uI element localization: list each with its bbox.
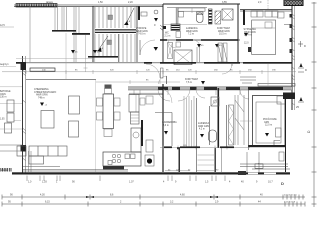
garderoba L wall (155, 113, 172, 147)
svg-text:Dwa: Dwa (258, 164, 263, 166)
kitchen small box (140, 98, 145, 105)
dim line 1 arrows (86, 196, 218, 198)
level marker triangle entry (154, 18, 158, 27)
dark bar under duct (52, 30, 76, 32)
sideboard dark top (105, 85, 112, 89)
pantry box (145, 155, 154, 166)
svg-text:BATORLE: BATORLE (0, 90, 11, 93)
stair number box lower (107, 40, 112, 45)
bedroom left wall stub (243, 10, 245, 25)
kitchen left counter (129, 94, 139, 112)
left room divider vertical (29, 6, 31, 62)
right dim arrow3 (296, 97, 304, 109)
lower dark vertical garderoba (179, 148, 181, 172)
pantry box upper (146, 96, 153, 104)
toilet bath2 (209, 130, 217, 142)
dark dash (177, 147, 180, 149)
kitchen appliance stack (131, 112, 140, 124)
right dim small arrows (298, 41, 306, 48)
shower box bath2 (211, 97, 219, 106)
corridor second dim line (96, 80, 180, 84)
corridor door leaf+arc kitchen (159, 76, 167, 84)
tick marks below bottom wall (27, 176, 225, 182)
bed (252, 20, 276, 55)
small sink boxes top right of counter (108, 161, 112, 165)
stairwell left wall (93, 6, 95, 62)
kitchen counter top edge (129, 93, 163, 94)
hall text label (136, 27, 148, 36)
bathroom right wall (237, 4, 239, 62)
dining table (103, 94, 114, 129)
stair stringer line (118, 34, 120, 62)
stair arrow up (124, 8, 134, 25)
left edge small label (0, 24, 14, 27)
level marker entry lower (154, 47, 159, 51)
entry lower door leaf (139, 40, 141, 55)
sofa (29, 146, 67, 164)
terrace tick line c (14, 120, 21, 122)
garderoba hatch strip (229, 105, 234, 145)
sink rects (125, 154, 135, 159)
left edge text (0, 90, 11, 99)
bath mid wall (160, 39, 240, 41)
door arc room1 (158, 89, 170, 101)
closet rails right (235, 95, 244, 145)
wc dark blob (163, 26, 166, 29)
child room step notch (274, 141, 280, 146)
washing machine dark blob (147, 158, 152, 163)
level marker garderoba2 (215, 44, 222, 48)
svg-text:1,03: 1,03 (42, 181, 47, 184)
lower rooms verticals (197, 98, 227, 172)
garderoba1 level (164, 131, 168, 135)
thin vertical x66 (65, 33, 67, 79)
window gap slot 2 (264, 173, 276, 175)
child furniture (276, 128, 282, 137)
small rect near bath b (176, 42, 181, 47)
stairwell right wall (136, 6, 138, 62)
bath fixture base line (163, 24, 207, 26)
wc label (165, 33, 171, 38)
svg-text:D: D (305, 68, 307, 72)
chairs left (97, 98, 103, 120)
wardrobe x-box lower (174, 50, 192, 65)
child room label (263, 118, 277, 127)
washbasin (179, 12, 184, 18)
terrace tick line a (0, 86, 22, 88)
svg-text:4,30: 4,30 (40, 194, 45, 197)
bottom main wall (12, 172, 290, 174)
kitchen tall cabinet (131, 128, 141, 152)
dim numbers row under wall (28, 181, 273, 184)
door arc bath (196, 89, 205, 98)
band ticks (134, 90, 240, 95)
D marker bottom (281, 181, 284, 186)
dim vertical x85 (84, 35, 88, 72)
window gap slot 1 (248, 173, 258, 175)
svg-text:terasa: terasa (1, 169, 8, 172)
svg-text:3,3 m: 3,3 m (163, 125, 169, 127)
child left line (240, 120, 252, 122)
upper secondary wall line (16, 58, 93, 60)
bedroom wardrobe small rect (278, 12, 285, 18)
bath2 label (198, 122, 210, 131)
level marker garderoba1 (197, 44, 204, 48)
dim numbers line1 (10, 194, 298, 197)
right top dark corner wall (283, 93, 295, 100)
closet shelves lines (198, 155, 215, 165)
door arc room2 (178, 89, 190, 101)
dark seg mid wall b (176, 39, 193, 41)
svg-text:AWR GRN: AWR GRN (198, 125, 209, 128)
vertical stub child bottom (247, 152, 259, 172)
bed side dark blob (248, 47, 251, 52)
terrace tick line b (0, 103, 22, 105)
living room label (34, 88, 56, 99)
entry door bracket (141, 12, 147, 16)
bath2 level (200, 134, 204, 138)
svg-text:1,07: 1,07 (129, 181, 134, 184)
dimension numbers top (42, 70, 276, 72)
child room walls (253, 96, 286, 147)
svg-text:4,60: 4,60 (180, 194, 185, 197)
child room bottom wall dark (248, 145, 286, 147)
corridor top wall dark segments (16, 62, 292, 64)
top terrace hatched band (16, 0, 57, 7)
bedroom inner line (284, 24, 292, 26)
bedroom label (244, 28, 257, 37)
svg-text:GWN: GWN (0, 94, 6, 96)
desk corridor right (240, 77, 256, 83)
chair bottom (104, 129, 112, 137)
bathroom label (186, 27, 198, 36)
kitchen counter dark (103, 166, 124, 170)
right dim arrow2 (298, 63, 307, 72)
dark seg mid wall (160, 39, 167, 41)
chairs right (114, 98, 120, 120)
corridor left wall child (248, 89, 250, 150)
bottom dimension line 2 (2, 202, 305, 207)
left divider line (0, 128, 22, 130)
garderoba label1 (162, 121, 177, 127)
svg-text:6,15: 6,15 (45, 201, 50, 204)
hallway wardrobe beam (30, 68, 55, 71)
radiator striped block (171, 24, 180, 31)
svg-text:748 m: 748 m (38, 96, 45, 99)
corridor bottom dark segments (158, 87, 283, 90)
corridor-right vertical (267, 64, 269, 86)
closet partitions (197, 47, 200, 62)
hall wall vertical (162, 4, 164, 62)
left exterior wall vertical (23, 56, 26, 173)
svg-text:3,55: 3,55 (222, 1, 227, 4)
dark wall segment y33 (72, 33, 90, 35)
tv cabinet upper (69, 96, 80, 114)
dark roof hatch block top-right (284, 0, 303, 6)
small rect near bath (176, 32, 181, 38)
room bottom wall dark segs (164, 146, 234, 148)
shaft x-box (222, 9, 233, 20)
svg-text:tarasy: tarasy (46, 0, 54, 4)
stair bottom dark bar (88, 56, 118, 58)
duct wall verticals upper-left (55, 6, 79, 62)
entry lower door arc (140, 40, 155, 55)
svg-text:ŁAZIENKA: ŁAZIENKA (198, 122, 210, 125)
lower vertical x221 (221, 148, 223, 172)
closet lockers (218, 43, 227, 62)
left wall fixture 1 (7, 100, 14, 112)
wall line above stairs (93, 4, 163, 6)
dimension line top (2, 70, 296, 74)
svg-text:1,50: 1,50 (98, 1, 103, 4)
svg-text:2 12 15 15 8: 2 12 15 15 8 (284, 202, 296, 204)
corridor label top (217, 27, 230, 36)
svg-text:POKÓJ DZIE: POKÓJ DZIE (263, 118, 277, 121)
tv cabinet lower (69, 121, 79, 137)
left wall fixture 2 (5, 123, 12, 133)
coffee table (41, 111, 54, 129)
top-left exterior wall (14, 5, 163, 7)
dim numbers line2 (8, 201, 296, 204)
svg-text:7,6 m: 7,6 m (186, 81, 192, 84)
bedroom top wall (240, 10, 292, 12)
diagonal hatched wall (215, 11, 221, 24)
living level marker (40, 103, 48, 107)
svg-text:D: D (304, 44, 306, 48)
svg-text:2,20: 2,20 (128, 1, 133, 4)
kitchen island (103, 152, 141, 166)
door arc garderoba (163, 89, 172, 103)
stair number box upper (108, 15, 113, 20)
living room top wall (26, 79, 96, 81)
stair upper flight treads (95, 7, 135, 28)
right exterior wall (292, 6, 295, 110)
left wall pier lower (21, 145, 27, 152)
door circle symbol (154, 10, 158, 14)
stove burners (112, 154, 121, 163)
narrow locker (168, 43, 173, 59)
bottom dimension line 1 (2, 195, 305, 200)
pilaster dark blobs right (290, 14, 293, 53)
left wall fixture 3 (7, 113, 14, 122)
entry wall stub (138, 6, 140, 20)
verticals left living to wall (29, 151, 32, 172)
svg-text:WC: WC (165, 33, 169, 35)
left top line (0, 66, 16, 68)
bathroom inner top wall (167, 7, 207, 9)
left lower line (0, 150, 22, 152)
tiny numbers above wall (168, 170, 219, 172)
door arc bath upper b (193, 40, 200, 47)
window line rooms bottom (165, 170, 215, 172)
svg-text:12,0 m: 12,0 m (265, 125, 272, 127)
corridor-right door arc (222, 64, 232, 74)
beam line right mid (258, 84, 295, 87)
stair landing bars (95, 29, 136, 30)
toilet divider wall (191, 8, 193, 13)
svg-text:12,0: 12,0 (244, 43, 249, 45)
level marker stair left b (93, 50, 100, 54)
child level marker (265, 133, 269, 137)
door leaf strip (184, 96, 194, 148)
bottom left hatch (0, 168, 12, 172)
wc niche column (176, 8, 178, 25)
toilet top bath (197, 12, 204, 23)
kitchen wall vertical (141, 120, 143, 146)
bottom windows double lines (23, 167, 128, 172)
svg-text:10,5 m: 10,5 m (219, 33, 226, 36)
lower dark vertical bath (215, 148, 216, 172)
masonry block (209, 9, 213, 24)
level marker bedroom (244, 33, 249, 45)
svg-text:2,1 m: 2,1 m (165, 35, 171, 37)
door arc child (240, 90, 249, 99)
level marker stair left a (71, 50, 78, 54)
balcony slide door lines (240, 164, 290, 169)
svg-text:1,05: 1,05 (0, 119, 5, 121)
door arc bath upper a (168, 40, 176, 48)
dark seg mid wall c (201, 39, 238, 41)
svg-text:130 m: 130 m (0, 97, 6, 99)
corridor top wall (16, 62, 292, 64)
corridor bottom wall band (128, 87, 292, 90)
svg-text:GRN: GRN (264, 122, 269, 124)
corridor left door jamb rect (161, 68, 164, 78)
svg-text:2,0 2,5 2,5 2,5: 2,0 2,5 2,5 2,5 (284, 195, 298, 197)
svg-text:4,2 m: 4,2 m (199, 129, 205, 131)
corridor door arc left (146, 64, 160, 78)
bedroom wardrobe row (251, 11, 278, 17)
living-dining boundary line (95, 80, 97, 172)
svg-text:74,0 m: 74,0 m (138, 33, 145, 36)
bathroom top wall (163, 3, 240, 5)
svg-text:12,5: 12,5 (0, 24, 5, 27)
dark box bottom right (238, 171, 246, 175)
svg-text:wegrzyn: wegrzyn (0, 63, 9, 66)
dashed line bedroom top (267, 0, 269, 10)
stair lower flight treads (95, 34, 135, 62)
left terrace wall line (0, 144, 22, 146)
pantry fixtures (146, 140, 153, 152)
kitchen-room wall dark (162, 84, 164, 172)
wall jamb ticks (160, 25, 163, 31)
stair arrow down (97, 36, 108, 52)
right vertical dimension line (312, 2, 317, 207)
chair top (105, 89, 112, 94)
svg-text:7,2 m: 7,2 m (188, 33, 194, 36)
svg-text:GARDEROBA: GARDEROBA (162, 121, 177, 124)
small rect child bottom (279, 152, 284, 161)
corridor level marker (201, 81, 205, 85)
inner dimension line rooms (160, 146, 250, 150)
slide door boxes (255, 164, 263, 169)
child room niche (277, 96, 285, 104)
top dimension numbers (98, 1, 262, 4)
right wall lower (285, 99, 287, 172)
left wall pier upper (21, 63, 27, 71)
svg-text:D: D (281, 181, 284, 186)
washbasin counter (178, 8, 205, 11)
bath right dark wall (218, 88, 220, 148)
corridor text (185, 78, 198, 84)
side table (17, 146, 26, 156)
svg-text:10,7: 10,7 (268, 181, 273, 184)
